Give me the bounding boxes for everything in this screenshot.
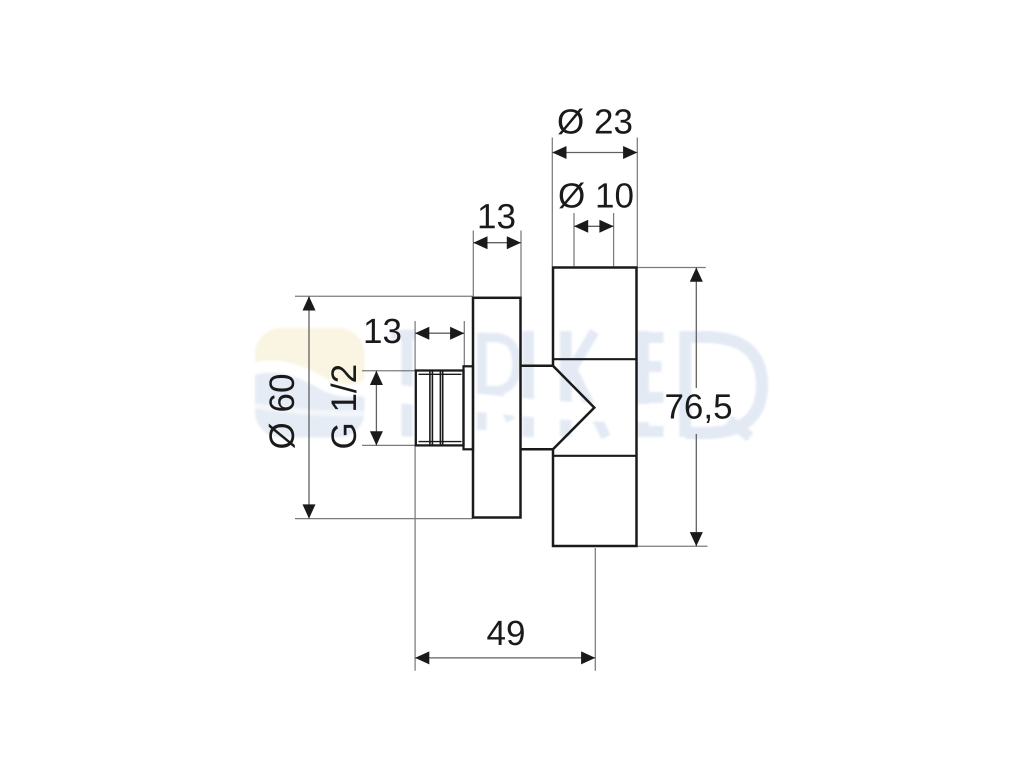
ext line 49 right	[594, 548, 596, 671]
collar ring	[464, 366, 474, 449]
dim line dia23	[552, 152, 637, 154]
dim line dia10	[574, 225, 614, 227]
svg-text:13: 13	[477, 197, 516, 236]
arrow dia60 up	[303, 296, 316, 310]
arrow dia60 down	[303, 504, 316, 518]
arrow 13 top right	[507, 236, 521, 249]
watermark letter R big	[685, 331, 762, 437]
svg-text:G 1/2: G 1/2	[325, 364, 364, 450]
svg-text:76,5: 76,5	[664, 387, 732, 426]
svg-text:Ø 23: Ø 23	[557, 102, 633, 141]
arrow dia10 right	[599, 220, 613, 233]
watermark letter K	[566, 331, 606, 437]
dim line 13 thread	[415, 332, 464, 334]
thread root line bottom	[419, 441, 462, 443]
dim line 76.5 lower part	[695, 434, 697, 546]
svg-text:Ø 10: Ø 10	[558, 176, 634, 215]
arrow dia23 left	[552, 146, 566, 159]
arrow G12 up	[370, 371, 383, 385]
thread root line top	[419, 373, 462, 375]
ext line dia60 top	[295, 295, 473, 297]
ext line dia10 left	[573, 213, 575, 266]
arrow 13 thread right	[450, 327, 464, 340]
arrow 76.5 down	[690, 532, 703, 546]
thread vertical line 3	[439, 371, 441, 446]
thread vertical line 4	[442, 371, 444, 446]
watermark letter T	[391, 335, 415, 437]
ext line dia10 right	[613, 213, 615, 266]
watermark logo rounded square (yellow top)	[255, 328, 365, 438]
ext line 76.5 bottom	[637, 545, 707, 547]
arrow 13 thread left	[415, 327, 429, 340]
ext line 13 thread right	[463, 321, 465, 366]
svg-text:Ø 60: Ø 60	[263, 374, 302, 450]
thread vertical line 1	[429, 371, 431, 446]
svg-text:49: 49	[487, 614, 526, 653]
ext line 76.5 top	[637, 267, 705, 269]
neck top edge	[521, 365, 554, 368]
ext line 49 left	[414, 446, 416, 671]
watermark letter I	[522, 331, 534, 437]
ext line dia23 left	[551, 138, 553, 267]
arrow dia10 left	[574, 220, 588, 233]
wall flange rectangle	[473, 298, 521, 518]
arrow 49 right	[581, 651, 595, 664]
ext line G12 bottom	[362, 444, 415, 446]
watermark logo blue lower half	[250, 372, 370, 442]
arrow 13 top left	[473, 236, 487, 249]
body internal line upper	[553, 358, 637, 360]
ext line dia60 bottom	[295, 518, 473, 520]
svg-text:13: 13	[363, 312, 402, 351]
arrow dia23 right	[623, 146, 637, 159]
thread outer rectangle	[416, 371, 464, 446]
dim line 49	[415, 657, 595, 659]
arrow 76.5 up	[690, 268, 703, 282]
ext line 13 thread left	[414, 321, 416, 370]
valve body outline with chevron notch	[553, 268, 637, 547]
ext line 13 top left	[472, 231, 474, 298]
thread vertical line 2	[431, 371, 433, 446]
watermark white wave band	[252, 366, 366, 390]
ext line 13 top right	[520, 231, 522, 298]
dim line 13 top	[473, 242, 521, 244]
body internal line lower	[553, 455, 637, 457]
dim line dia60	[308, 296, 310, 518]
watermark letter R small	[482, 333, 517, 431]
dim line 76.5 upper part	[695, 268, 697, 389]
ext line dia23 right	[636, 138, 638, 267]
watermark faint second wave	[256, 406, 364, 414]
dim line G12	[375, 371, 377, 446]
arrow 49 left	[415, 651, 429, 664]
neck bottom edge	[521, 448, 554, 451]
arrow G12 down	[370, 431, 383, 445]
ext line G12 top	[362, 370, 415, 372]
watermark letter E	[638, 331, 664, 437]
